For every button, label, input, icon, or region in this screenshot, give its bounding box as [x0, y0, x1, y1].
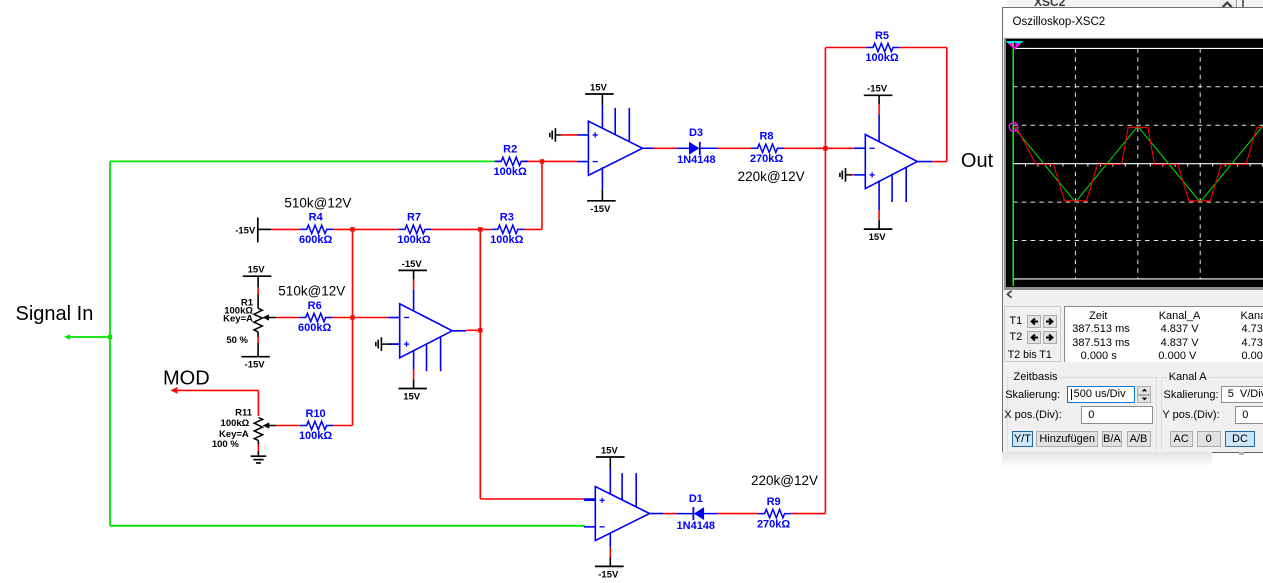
window title text	[1013, 16, 1106, 28]
wire R11 bottom lead	[257, 441, 259, 457]
scrollbar separator lines	[1236, 0, 1237, 7]
T1 arrow buttons	[1027, 315, 1041, 328]
T2 arrow buttons	[1027, 331, 1041, 344]
power -15V (R4 row)	[235, 217, 271, 242]
wire MOD vertical to R11	[257, 390, 259, 416]
partial XSC2 label of instrument behind window	[1034, 0, 1094, 6]
label 220k@12V lower	[751, 473, 818, 488]
power -15V (R1 bottom)	[241, 357, 270, 371]
label R8 270k	[750, 131, 783, 165]
op-amp U2	[388, 304, 452, 358]
wire R3 up to node A	[525, 228, 543, 230]
readout table	[1064, 306, 1263, 362]
resistor R8	[751, 144, 784, 152]
background window scrollbar strip (top right)	[1008, 0, 1263, 7]
Zeitbasis Skalierung row	[1005, 389, 1060, 401]
label R11	[235, 407, 253, 418]
label 510k@12V upper	[284, 195, 351, 210]
potentiometer R11	[254, 418, 262, 441]
wire green vertical	[109, 161, 111, 525]
wire U3 V+ supply	[878, 180, 880, 229]
node R7-R3 junction	[478, 227, 482, 231]
resistor R2	[495, 157, 528, 165]
window title bar	[1003, 8, 1263, 37]
op-amp U1	[577, 121, 643, 175]
scope grid horizontal 1	[1013, 86, 1263, 88]
oscilloscope window Oszilloskop-XSC2	[1002, 7, 1263, 453]
scope black screen	[1006, 39, 1263, 287]
wire U4 V- supply	[609, 533, 611, 567]
resistor R9	[758, 509, 791, 517]
label R11 100%	[212, 439, 239, 450]
label D1	[689, 493, 703, 505]
bottom buttons Y/T Hinzufuegen B/A A/B	[1012, 431, 1034, 447]
T1/T2 cursor panel	[1004, 306, 1062, 362]
wire U2 V- supply	[413, 270, 415, 311]
scrollbar up button	[1219, 0, 1236, 7]
R11 wiper arrow	[263, 422, 276, 428]
U3 offset pins	[892, 167, 906, 202]
scope channel B red clipped wave	[1013, 127, 1263, 200]
scope grid vertical 3	[1199, 48, 1201, 279]
label R2 100k	[494, 144, 527, 178]
ground U3 plus input	[840, 168, 854, 182]
label Out	[961, 150, 994, 172]
wire U2 V+ supply	[413, 351, 415, 389]
wire R1 bottom lead	[257, 332, 259, 357]
wire R1 wiper to R6	[276, 317, 299, 319]
wire green bottom horizontal	[110, 525, 585, 527]
resistor R4	[300, 225, 333, 233]
scope trigger level circle	[1009, 123, 1018, 132]
label D3	[689, 127, 703, 139]
wire D3 to R8	[718, 147, 751, 149]
potentiometer R1	[254, 308, 262, 332]
resistor R5	[866, 43, 899, 51]
wire junction down to R6 row	[352, 229, 354, 425]
cursor marker digit	[1013, 43, 1014, 47]
wire node B to U3 minus	[825, 147, 853, 149]
label R5 100k	[865, 30, 898, 64]
power -15V (U4 bottom)	[595, 566, 624, 580]
ground U2 plus input	[376, 337, 400, 351]
label R4 600k	[299, 212, 332, 246]
label R11 Key=A	[219, 429, 249, 440]
wire U2 output	[452, 329, 480, 332]
resistor R10	[300, 421, 333, 429]
diode D1	[676, 507, 717, 520]
power 15V (U2 bottom)	[398, 389, 427, 403]
label R3 100k	[490, 212, 523, 246]
scope cursor marker T2	[1006, 41, 1024, 50]
power 15V (R1 top)	[243, 265, 272, 277]
power 15V (U4 top)	[596, 445, 625, 457]
resistor R7	[398, 225, 431, 233]
label 510k@12V lower	[278, 283, 345, 298]
node A junction	[540, 159, 544, 163]
label R1 50%	[226, 335, 248, 346]
Kanal A Skalierung row	[1164, 389, 1219, 401]
wire R11 wiper to R10	[276, 425, 300, 427]
wire R5 left	[825, 47, 866, 49]
wire green top horizontal	[110, 160, 495, 162]
wire R5 right + down	[900, 48, 947, 162]
power -15V (U1 bottom)	[587, 201, 616, 215]
resistor R6	[299, 313, 332, 321]
spinner	[1137, 386, 1151, 395]
R1 wiper arrow	[262, 314, 276, 320]
wire U4 output	[650, 513, 677, 515]
pin Signal In arrow	[64, 334, 70, 340]
wire U3 V- supply	[878, 95, 880, 143]
label D3 1N4148	[677, 154, 716, 166]
node R6 junction	[350, 315, 354, 319]
ground (earth) below R11	[251, 456, 267, 463]
node U2 output junction	[478, 328, 482, 332]
wire U1 V+ supply	[601, 94, 603, 129]
Y pos row	[1162, 409, 1219, 421]
label Signal In	[16, 303, 94, 325]
wire node A to U1 minus	[542, 160, 577, 162]
label R1 Key=A	[223, 313, 253, 324]
scope grid vertical 1	[1074, 48, 1076, 279]
U4 offset pins	[622, 473, 636, 507]
wire U1 V- supply	[601, 167, 603, 201]
X pos row	[1004, 409, 1061, 421]
wire U1 output	[643, 147, 677, 149]
label R1 100k	[224, 305, 253, 316]
label R11 100k	[221, 418, 250, 429]
wire U2out to U4 plus	[480, 498, 595, 500]
wire U4 V+ supply	[609, 457, 611, 495]
label R1	[241, 298, 254, 309]
scope horizontal scrollbar	[1003, 290, 1263, 300]
node R4-R7 junction	[350, 227, 354, 231]
label R6 600k	[298, 300, 331, 334]
scope channel A green triangle wave	[1013, 126, 1263, 202]
power -15V (U2 top)	[398, 259, 427, 271]
diode D3	[676, 142, 717, 155]
scope grid top border	[1013, 47, 1263, 49]
wire MOD horizontal	[175, 389, 258, 391]
node Signal In junction	[108, 335, 112, 339]
scope grid vertical 2	[1137, 48, 1139, 279]
scope grid horizontal 2	[1013, 124, 1263, 126]
scope x-axis	[1013, 163, 1263, 165]
resistor R3	[491, 225, 524, 233]
U2 offset pins	[427, 337, 441, 371]
scope axis ticks	[1025, 164, 1027, 167]
scope grid horizontal 4	[1013, 240, 1263, 242]
wire U3 output	[917, 161, 947, 163]
wire R2 to node A	[528, 160, 542, 162]
label R10 100k	[299, 408, 332, 442]
label D1 1N4148	[677, 520, 716, 532]
power 15V (U1 top)	[585, 82, 614, 94]
op-amp U3	[854, 135, 918, 189]
scope screen bezel	[1004, 38, 1263, 291]
wire node A down to R3	[541, 161, 543, 229]
label MOD	[163, 367, 210, 389]
buttons AC 0 DC	[1170, 431, 1193, 447]
wire signal-in stub (green)	[67, 336, 110, 338]
wire R10 to vertical	[333, 425, 352, 427]
wire -15V to R4	[271, 228, 300, 230]
wire R6 to U2 minus	[332, 317, 388, 319]
power -15V (U3 top)	[864, 84, 893, 96]
scrollbar up chevron	[1219, 0, 1239, 8]
wire R8 to node B	[784, 147, 825, 149]
scope grid horizontal 3	[1013, 201, 1263, 203]
groupbox Zeitbasis	[1007, 377, 1158, 450]
scope grid bottom border	[1013, 278, 1263, 280]
wire node B vertical (R5/R9)	[824, 48, 826, 514]
scope cursor marker T1	[1008, 43, 1021, 50]
groupbox Kanal A	[1161, 377, 1263, 450]
U1 offset pins	[615, 108, 629, 142]
label 220k@12V upper	[738, 169, 805, 184]
wire R9 to vertical	[791, 513, 825, 515]
node B junction	[823, 146, 827, 150]
label R7 100k	[397, 212, 430, 246]
scope T1 cursor line	[1012, 41, 1014, 286]
wire R7 to R3	[432, 228, 491, 230]
wire junction down to U2 output row	[479, 229, 481, 499]
power 15V (U3 bottom)	[864, 229, 893, 243]
op-amp U4	[584, 487, 650, 541]
wire R1 top lead	[257, 276, 259, 308]
wire R4 to R7	[333, 228, 398, 230]
label R9 270k	[757, 496, 790, 530]
wire D1 to R9	[718, 513, 758, 515]
window shadow below	[1002, 452, 1212, 466]
ground U1 plus input	[550, 128, 577, 142]
pin MOD arrow	[171, 387, 178, 394]
